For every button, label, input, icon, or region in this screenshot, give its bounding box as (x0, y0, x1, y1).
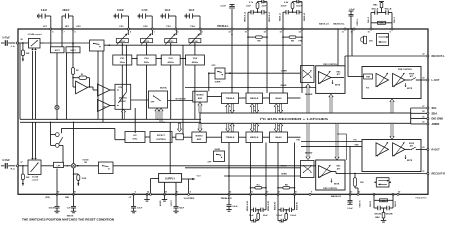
svg-text:EFFECT: EFFECT (157, 135, 166, 137)
svg-text:MIDDLE-L2: MIDDLE-L2 (245, 12, 247, 22)
svg-text:TREBLE: TREBLE (226, 98, 235, 100)
svg-text:22nF: 22nF (165, 9, 171, 12)
svg-text:3.6nF: 3.6nF (41, 9, 48, 12)
svg-text:22nF: 22nF (263, 215, 269, 217)
svg-text:68uF: 68uF (179, 207, 185, 209)
svg-text:RPO2: RPO2 (144, 41, 149, 43)
svg-text:ADDR: ADDR (432, 122, 440, 126)
svg-text:400Hz: 400Hz (168, 61, 175, 64)
svg-text:BASS-R2: BASS-R2 (274, 202, 277, 210)
svg-text:BBAND: BBAND (305, 151, 313, 154)
svg-text:WS-LB: WS-LB (385, 9, 392, 11)
svg-text:RECOUT-L: RECOUT-L (432, 54, 446, 58)
svg-text:100nF: 100nF (280, 6, 287, 8)
svg-text:680nF: 680nF (63, 9, 70, 12)
svg-text:SURR: SURR (281, 174, 287, 176)
svg-text:100nF: 100nF (290, 215, 297, 217)
svg-text:BASS: BASS (275, 136, 282, 139)
svg-text:BASS-R1: BASS-R1 (295, 202, 298, 210)
svg-text:AGND: AGND (159, 200, 162, 206)
svg-text:BASS: BASS (275, 97, 282, 100)
svg-text:REC: REC (337, 71, 342, 73)
svg-text:SCL: SCL (432, 106, 438, 110)
svg-text:C/OUT: C/OUT (171, 200, 173, 207)
svg-text:VOLT/REF: VOLT/REF (184, 198, 195, 200)
svg-text:BASS-L2: BASS-L2 (303, 13, 306, 21)
svg-text:W50: W50 (382, 200, 386, 202)
svg-text:4.7nF: 4.7nF (141, 9, 148, 12)
svg-text:L-OUT: L-OUT (432, 78, 440, 82)
svg-text:30K: 30K (360, 182, 364, 184)
svg-text:AMP: AMP (197, 138, 202, 141)
svg-text:100nF: 100nF (117, 9, 124, 12)
svg-text:VOICE: VOICE (82, 159, 89, 161)
svg-text:WS-LA: WS-LA (372, 8, 379, 11)
svg-text:WS-R3: WS-R3 (370, 201, 372, 207)
svg-text:BASS-L1: BASS-L1 (279, 13, 282, 21)
svg-text:RM: RM (257, 41, 260, 43)
svg-text:100nF: 100nF (296, 6, 303, 8)
svg-text:0.47uF: 0.47uF (2, 159, 10, 162)
svg-text:1.8uF: 1.8uF (137, 207, 143, 209)
svg-text:R-in: R-in (11, 169, 16, 171)
svg-text:30K: 30K (369, 40, 373, 42)
svg-text:MUTE: MUTE (407, 88, 413, 90)
svg-text:I²C BUS DECODER + LATCHES: I²C BUS DECODER + LATCHES (260, 117, 328, 121)
svg-text:WS-R1: WS-R1 (395, 201, 397, 207)
svg-text:TREBLE: TREBLE (226, 137, 235, 139)
svg-text:VNR: VNR (355, 144, 360, 146)
svg-text:DIG GND: DIG GND (432, 117, 444, 121)
svg-text:31.5dB control: 31.5dB control (28, 33, 42, 36)
svg-text:control: control (32, 179, 39, 182)
svg-text:MIXING: MIXING (196, 135, 204, 137)
svg-text:MUTE: MUTE (334, 183, 340, 185)
svg-text:BASSO-R: BASSO-R (331, 195, 342, 198)
svg-text:22nF: 22nF (262, 6, 268, 8)
svg-text:MIDDLE: MIDDLE (250, 137, 259, 139)
svg-text:(MONO): (MONO) (119, 97, 127, 99)
svg-text:100nF: 100nF (296, 2, 303, 4)
svg-text:10nF: 10nF (246, 6, 252, 8)
svg-text:50K: 50K (26, 53, 30, 55)
svg-text:3.6nF: 3.6nF (232, 206, 238, 208)
svg-text:WS-RA: WS-RA (374, 212, 382, 215)
svg-text:8kHz: 8kHz (133, 138, 138, 140)
svg-text:STM: STM (118, 87, 122, 89)
svg-text:PWR CONTROL: PWR CONTROL (398, 69, 413, 71)
svg-text:VREF-L: VREF-L (357, 18, 359, 26)
svg-text:RECOUT-R: RECOUT-R (432, 172, 446, 176)
svg-text:22nF: 22nF (262, 2, 268, 4)
svg-text:TREBLE-L: TREBLE-L (217, 25, 229, 28)
svg-text:SURR: SURR (215, 82, 221, 84)
svg-text:50Hz: 50Hz (120, 62, 126, 64)
svg-text:MUTE: MUTE (335, 85, 341, 87)
svg-text:L-in: L-in (11, 46, 16, 48)
svg-text:PWR CONTROL: PWR CONTROL (323, 188, 338, 190)
svg-text:MIDDLE-L1: MIDDLE-L1 (269, 12, 271, 22)
svg-text:100K: 100K (82, 178, 87, 180)
svg-text:WS-RB: WS-RB (385, 213, 393, 215)
svg-text:R0: R0 (81, 74, 83, 76)
svg-text:VNR: VNR (366, 77, 371, 79)
svg-text:SPKR: SPKR (409, 73, 415, 75)
svg-text:R-OUT: R-OUT (432, 147, 441, 151)
svg-text:MIXING: MIXING (196, 95, 204, 97)
svg-text:HWA4200C: HWA4200C (415, 197, 427, 200)
svg-text:3.3uF: 3.3uF (347, 208, 353, 210)
svg-text:50K: 50K (26, 177, 30, 179)
svg-text:31.5dB: 31.5dB (32, 177, 39, 179)
svg-text:F/B: F/B (297, 140, 301, 142)
svg-text:AMP: AMP (198, 97, 203, 100)
svg-text:100nF: 100nF (276, 215, 283, 217)
svg-text:SDA: SDA (432, 111, 438, 115)
svg-text:BASS-LO: BASS-LO (319, 23, 329, 26)
svg-text:MUSIC: MUSIC (160, 88, 167, 90)
svg-text:MUSIC: MUSIC (120, 101, 127, 103)
svg-text:REAR: REAR (281, 84, 287, 87)
svg-text:SURR: SURR (281, 71, 287, 73)
svg-text:MIDDLE: MIDDLE (250, 98, 259, 100)
svg-text:VREF-R: VREF-R (359, 200, 361, 208)
svg-text:400Hz: 400Hz (192, 61, 199, 64)
svg-text:3.3uF: 3.3uF (349, 9, 355, 11)
svg-text:MIDDLE-R2: MIDDLE-R2 (247, 201, 249, 211)
svg-text:MUTE: MUTE (407, 160, 413, 162)
svg-text:100nF: 100nF (48, 208, 55, 210)
svg-text:TREBLE-R: TREBLE-R (220, 198, 231, 200)
svg-text:F/B: F/B (299, 40, 303, 42)
svg-text:MOVE/SIM: MOVE/SIM (175, 98, 185, 100)
svg-text:SPKR: SPKR (409, 143, 415, 145)
svg-text:CONTROL: CONTROL (156, 139, 167, 141)
svg-text:3.3nF: 3.3nF (220, 6, 226, 8)
svg-text:10nF: 10nF (249, 215, 255, 217)
svg-text:(PW): (PW) (45, 197, 50, 199)
svg-text:MIDDLE-R1: MIDDLE-R1 (268, 201, 270, 211)
svg-text:THE SWITCHES POSITION MATCHES: THE SWITCHES POSITION MATCHES THE RESET … (22, 218, 114, 222)
svg-text:SURR: SURR (214, 149, 220, 151)
svg-text:PWR CONTROL: PWR CONTROL (323, 64, 338, 66)
svg-text:Rm: Rm (257, 184, 260, 186)
svg-text:0.47uF: 0.47uF (2, 36, 10, 39)
svg-text:SLP1: SLP1 (55, 50, 61, 52)
svg-text:SUPPLY: SUPPLY (165, 176, 175, 180)
svg-text:RPO1: RPO1 (120, 41, 125, 43)
svg-text:REC: REC (337, 166, 342, 168)
svg-text:W50: W50 (380, 23, 384, 25)
svg-text:WS-L3: WS-L3 (368, 17, 370, 23)
svg-text:BBAND: BBAND (305, 93, 313, 96)
svg-text:RPO3: RPO3 (168, 41, 173, 43)
svg-text:50Hz: 50Hz (144, 62, 150, 64)
svg-text:WS-L1: WS-L1 (394, 17, 396, 23)
svg-text:BASSCH-L: BASSCH-L (333, 23, 345, 26)
svg-text:Vref: Vref (197, 175, 201, 177)
svg-text:SHP1: SHP1 (70, 50, 76, 52)
svg-text:22nF: 22nF (189, 9, 195, 12)
svg-text:MIB: MIB (65, 197, 69, 199)
